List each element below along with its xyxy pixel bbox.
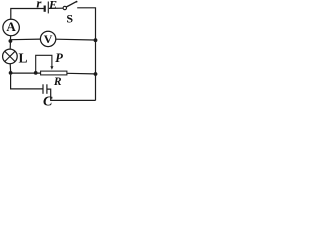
node slider tap bbox=[34, 71, 38, 75]
voltmeter V bbox=[40, 31, 55, 46]
switch S pivot contact bbox=[63, 6, 66, 9]
battery E long thin plate bbox=[47, 2, 49, 14]
wire ammeter to lamp bbox=[9, 36, 11, 50]
wire battery to switch bbox=[49, 7, 63, 9]
slider arrow head P bbox=[50, 66, 53, 70]
switch S blade tip bbox=[76, 1, 78, 3]
lamp L bbox=[3, 49, 18, 64]
svg-text:S: S bbox=[66, 12, 73, 26]
svg-text:P: P bbox=[55, 51, 63, 65]
wire node to rheostat bbox=[11, 72, 41, 74]
svg-text:V: V bbox=[44, 32, 53, 46]
svg-text:R: R bbox=[53, 76, 62, 88]
lamp L cross stroke 2 bbox=[5, 51, 15, 61]
svg-text:L: L bbox=[19, 51, 28, 66]
wire top-left (battery to corner to ammeter) bbox=[11, 9, 44, 20]
node junction lamp/rheostat/capacitor bbox=[9, 71, 13, 75]
wire node to voltmeter bbox=[11, 38, 40, 41]
svg-text:E: E bbox=[48, 0, 57, 12]
switch S blade bbox=[66, 1, 76, 7]
wire switch to top-right corner, down right side bbox=[77, 8, 95, 101]
wire rheostat to right wire bbox=[67, 72, 94, 75]
capacitor C right plate bbox=[46, 84, 48, 94]
svg-text:A: A bbox=[6, 19, 16, 34]
lamp L cross stroke 1 bbox=[5, 51, 15, 61]
rheostat body R bbox=[41, 71, 67, 75]
ammeter A bbox=[3, 19, 20, 36]
wire lamp to bottom node bbox=[9, 64, 11, 72]
capacitor C left plate bbox=[42, 84, 44, 94]
wire capacitor right plate to jog down and bottom-right corner bbox=[47, 89, 95, 100]
slider arm wire of potentiometer bbox=[36, 55, 52, 72]
node rheostat tap on right wire bbox=[94, 72, 98, 76]
wire bottom-left L bend to capacitor bbox=[11, 75, 43, 89]
wire voltmeter to right wire bbox=[56, 38, 94, 41]
node voltmeter tap on right wire bbox=[94, 38, 98, 42]
node junction ammeter/voltmeter/lamp bbox=[9, 39, 13, 43]
svg-text:C: C bbox=[43, 94, 53, 108]
battery E short thick plate bbox=[44, 6, 46, 12]
